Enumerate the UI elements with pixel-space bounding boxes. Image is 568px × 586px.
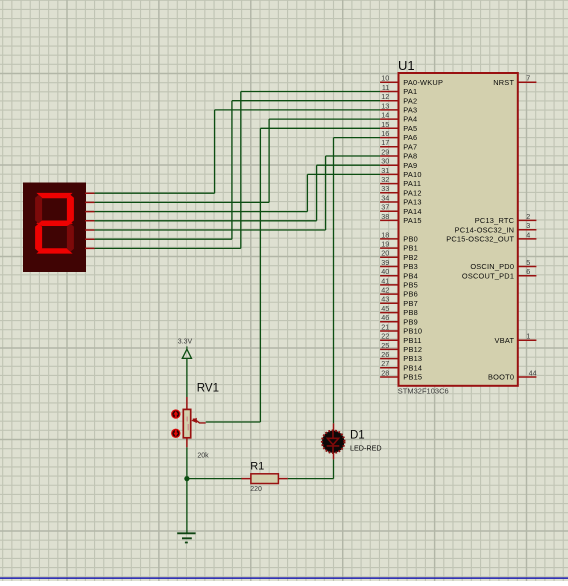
svg-text:12: 12 [381, 92, 389, 101]
svg-text:31: 31 [381, 166, 389, 175]
svg-text:PA3: PA3 [403, 106, 417, 115]
svg-text:PB4: PB4 [403, 271, 418, 280]
svg-text:PB12: PB12 [403, 345, 422, 354]
svg-text:26: 26 [381, 350, 389, 359]
svg-text:10: 10 [381, 74, 389, 83]
svg-text:PA6: PA6 [403, 133, 417, 142]
svg-text:38: 38 [381, 212, 389, 221]
svg-text:PB5: PB5 [403, 281, 418, 290]
svg-text:PA7: PA7 [403, 142, 417, 151]
svg-text:STM32F103C6: STM32F103C6 [398, 387, 449, 396]
svg-text:PB3: PB3 [403, 262, 418, 271]
svg-text:40: 40 [381, 267, 389, 276]
svg-text:LED-RED: LED-RED [350, 444, 382, 453]
svg-text:PB2: PB2 [403, 253, 418, 262]
svg-text:4: 4 [526, 230, 530, 239]
svg-text:14: 14 [381, 111, 389, 120]
svg-text:PA1: PA1 [403, 87, 417, 96]
svg-text:39: 39 [381, 258, 389, 267]
svg-text:32: 32 [381, 175, 389, 184]
svg-text:45: 45 [381, 304, 389, 313]
svg-text:R1: R1 [250, 460, 264, 472]
svg-text:18: 18 [381, 230, 389, 239]
svg-text:30: 30 [381, 157, 389, 166]
svg-text:17: 17 [381, 138, 389, 147]
svg-text:16: 16 [381, 129, 389, 138]
svg-text:7: 7 [526, 74, 530, 83]
svg-text:PA12: PA12 [403, 188, 421, 197]
svg-text:PB15: PB15 [403, 373, 422, 382]
svg-text:PB0: PB0 [403, 235, 418, 244]
svg-text:220: 220 [250, 486, 262, 493]
svg-text:U1: U1 [398, 58, 415, 73]
svg-text:25: 25 [381, 341, 389, 350]
svg-text:NRST: NRST [493, 78, 514, 87]
svg-text:20: 20 [381, 249, 389, 258]
svg-text:PA2: PA2 [403, 96, 417, 105]
svg-text:3: 3 [526, 221, 530, 230]
svg-text:PA9: PA9 [403, 161, 417, 170]
svg-text:PB13: PB13 [403, 354, 422, 363]
svg-text:37: 37 [381, 203, 389, 212]
svg-text:19: 19 [381, 240, 389, 249]
svg-text:44: 44 [529, 368, 537, 377]
svg-text:PB6: PB6 [403, 290, 418, 299]
svg-text:PA14: PA14 [403, 207, 421, 216]
svg-text:PB10: PB10 [403, 327, 422, 336]
svg-text:BOOT0: BOOT0 [488, 373, 514, 382]
svg-text:20k: 20k [197, 453, 209, 460]
svg-text:PB14: PB14 [403, 363, 422, 372]
svg-text:2: 2 [526, 212, 530, 221]
svg-text:3.3V: 3.3V [178, 338, 193, 345]
svg-text:VBAT: VBAT [495, 336, 515, 345]
svg-text:PB9: PB9 [403, 317, 418, 326]
svg-text:21: 21 [381, 322, 389, 331]
svg-text:PB11: PB11 [403, 336, 421, 345]
svg-text:41: 41 [381, 276, 389, 285]
svg-text:RV1: RV1 [197, 382, 219, 394]
svg-text:28: 28 [381, 368, 389, 377]
svg-text:PA15: PA15 [403, 216, 421, 225]
svg-text:27: 27 [381, 359, 389, 368]
svg-text:13: 13 [381, 101, 389, 110]
svg-text:5: 5 [526, 258, 530, 267]
svg-text:PA10: PA10 [403, 170, 421, 179]
svg-text:43: 43 [381, 295, 389, 304]
svg-text:PC15-OSC32_OUT: PC15-OSC32_OUT [446, 235, 514, 244]
svg-text:29: 29 [381, 147, 389, 156]
svg-text:33: 33 [381, 184, 389, 193]
svg-text:PA4: PA4 [403, 115, 417, 124]
svg-text:46: 46 [381, 313, 389, 322]
svg-text:PB8: PB8 [403, 308, 418, 317]
svg-text:PA13: PA13 [403, 198, 421, 207]
svg-text:6: 6 [526, 267, 530, 276]
svg-text:OSCIN_PD0: OSCIN_PD0 [470, 262, 514, 271]
svg-text:PC13_RTC: PC13_RTC [475, 216, 515, 225]
svg-text:PA5: PA5 [403, 124, 417, 133]
svg-text:PB1: PB1 [403, 244, 418, 253]
svg-text:42: 42 [381, 286, 389, 295]
svg-text:PA0-WKUP: PA0-WKUP [403, 78, 443, 87]
svg-text:PA8: PA8 [403, 152, 417, 161]
svg-text:34: 34 [381, 193, 389, 202]
svg-text:OSCOUT_PD1: OSCOUT_PD1 [462, 271, 514, 280]
svg-text:15: 15 [381, 120, 389, 129]
svg-text:D1: D1 [350, 429, 365, 441]
svg-text:PC14-OSC32_IN: PC14-OSC32_IN [455, 225, 515, 234]
svg-text:PA11: PA11 [403, 179, 421, 188]
svg-text:1: 1 [526, 332, 530, 341]
svg-text:PB7: PB7 [403, 299, 418, 308]
svg-text:11: 11 [382, 83, 389, 92]
svg-text:22: 22 [381, 332, 389, 341]
